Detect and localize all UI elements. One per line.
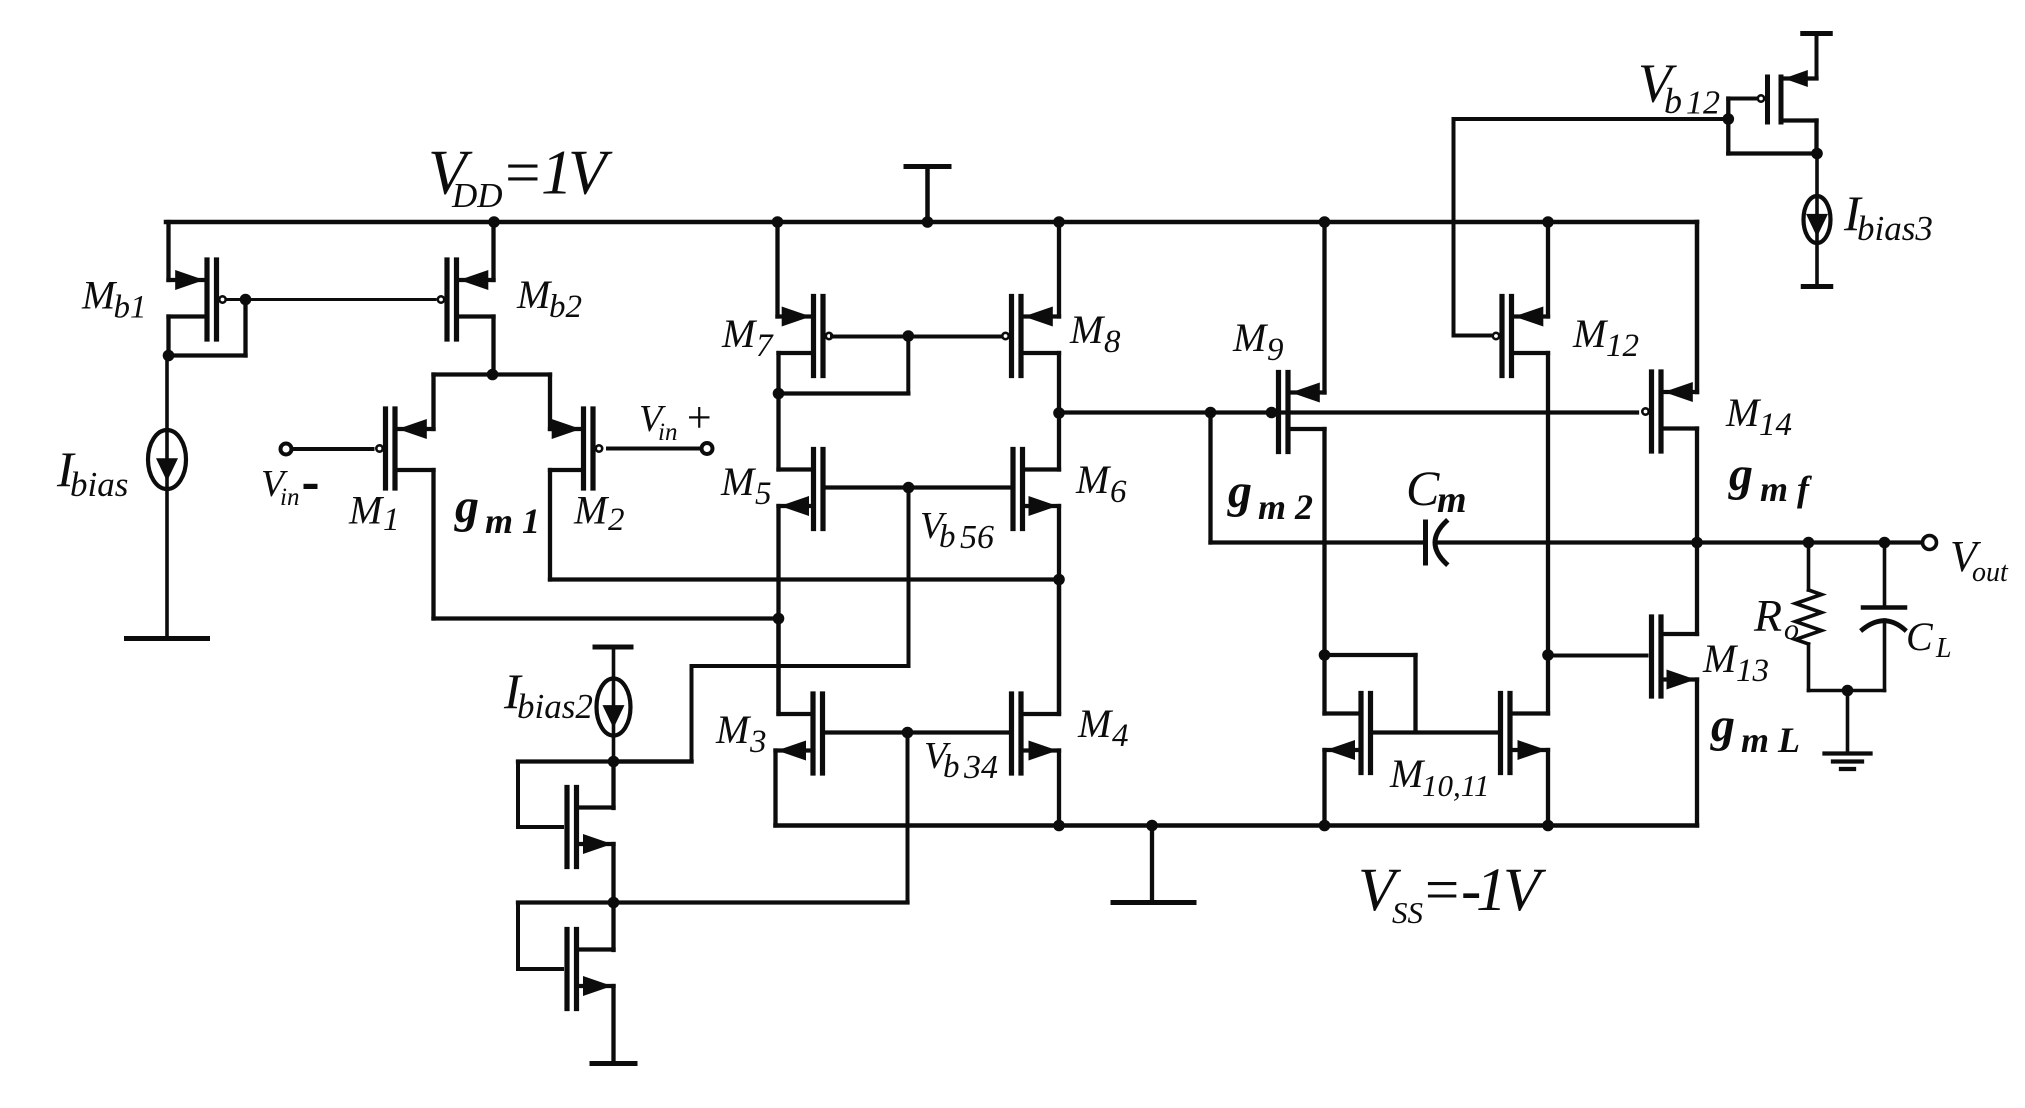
svg-text:1: 1 bbox=[1476, 857, 1507, 924]
svg-text:M: M bbox=[573, 488, 610, 533]
svg-text:M: M bbox=[1075, 457, 1112, 502]
svg-text:m f: m f bbox=[1760, 469, 1812, 509]
svg-text:M: M bbox=[516, 272, 553, 317]
svg-text:3: 3 bbox=[749, 724, 767, 760]
svg-text:14: 14 bbox=[1759, 407, 1792, 443]
svg-text:o: o bbox=[1784, 613, 1799, 646]
svg-text:5: 5 bbox=[755, 476, 772, 512]
svg-text:9: 9 bbox=[1267, 332, 1284, 368]
svg-text:b: b bbox=[939, 519, 956, 555]
svg-text:M: M bbox=[1572, 311, 1609, 356]
svg-text:g: g bbox=[1710, 699, 1735, 752]
svg-text:34: 34 bbox=[963, 749, 998, 786]
svg-text:12: 12 bbox=[1686, 85, 1720, 122]
svg-text:m L: m L bbox=[1741, 720, 1800, 760]
svg-text:8: 8 bbox=[1104, 324, 1121, 360]
svg-text:m: m bbox=[1437, 479, 1467, 521]
svg-text:M: M bbox=[81, 273, 118, 318]
svg-text:13: 13 bbox=[1736, 653, 1769, 689]
svg-text:=: = bbox=[1421, 857, 1462, 924]
svg-text:bias2: bias2 bbox=[517, 687, 593, 726]
svg-text:b: b bbox=[1664, 81, 1682, 121]
svg-text:g: g bbox=[454, 480, 479, 533]
svg-text:L: L bbox=[1935, 633, 1952, 664]
svg-text:bias3: bias3 bbox=[1857, 209, 1933, 248]
svg-text:7: 7 bbox=[756, 328, 774, 364]
svg-text:6: 6 bbox=[1110, 474, 1127, 510]
svg-text:SS: SS bbox=[1392, 895, 1423, 930]
svg-text:M: M bbox=[1389, 751, 1426, 796]
svg-text:b2: b2 bbox=[549, 289, 582, 325]
svg-text:56: 56 bbox=[960, 519, 994, 556]
svg-text:g: g bbox=[1728, 448, 1753, 501]
svg-text:b1: b1 bbox=[114, 290, 147, 326]
svg-text:=: = bbox=[501, 138, 544, 208]
svg-text:m 1: m 1 bbox=[485, 501, 540, 541]
svg-text:m 2: m 2 bbox=[1258, 487, 1313, 527]
svg-text:in: in bbox=[658, 419, 677, 446]
svg-text:1: 1 bbox=[383, 502, 400, 538]
svg-text:+: + bbox=[684, 393, 714, 442]
svg-text:V: V bbox=[568, 138, 613, 208]
svg-text:M: M bbox=[348, 488, 385, 533]
svg-text:b: b bbox=[943, 749, 960, 785]
svg-text:R: R bbox=[1753, 590, 1782, 641]
svg-text:M: M bbox=[715, 707, 752, 752]
svg-text:4: 4 bbox=[1112, 718, 1129, 754]
svg-text:M: M bbox=[721, 311, 758, 356]
svg-text:M: M bbox=[1725, 390, 1762, 435]
svg-text:10,11: 10,11 bbox=[1422, 768, 1489, 803]
svg-text:g: g bbox=[1227, 465, 1252, 518]
svg-text:M: M bbox=[1077, 701, 1114, 746]
svg-text:M: M bbox=[1069, 307, 1106, 352]
svg-text:out: out bbox=[1972, 557, 2009, 588]
svg-text:12: 12 bbox=[1606, 328, 1639, 364]
svg-text:M: M bbox=[720, 459, 757, 504]
svg-text:bias: bias bbox=[70, 465, 128, 504]
svg-text:M: M bbox=[1702, 636, 1739, 681]
svg-text:C: C bbox=[1406, 460, 1440, 516]
svg-text:2: 2 bbox=[608, 502, 625, 538]
svg-text:C: C bbox=[1906, 614, 1934, 659]
svg-text:DD: DD bbox=[451, 176, 503, 215]
svg-text:in: in bbox=[280, 484, 299, 511]
svg-text:M: M bbox=[1232, 315, 1269, 360]
